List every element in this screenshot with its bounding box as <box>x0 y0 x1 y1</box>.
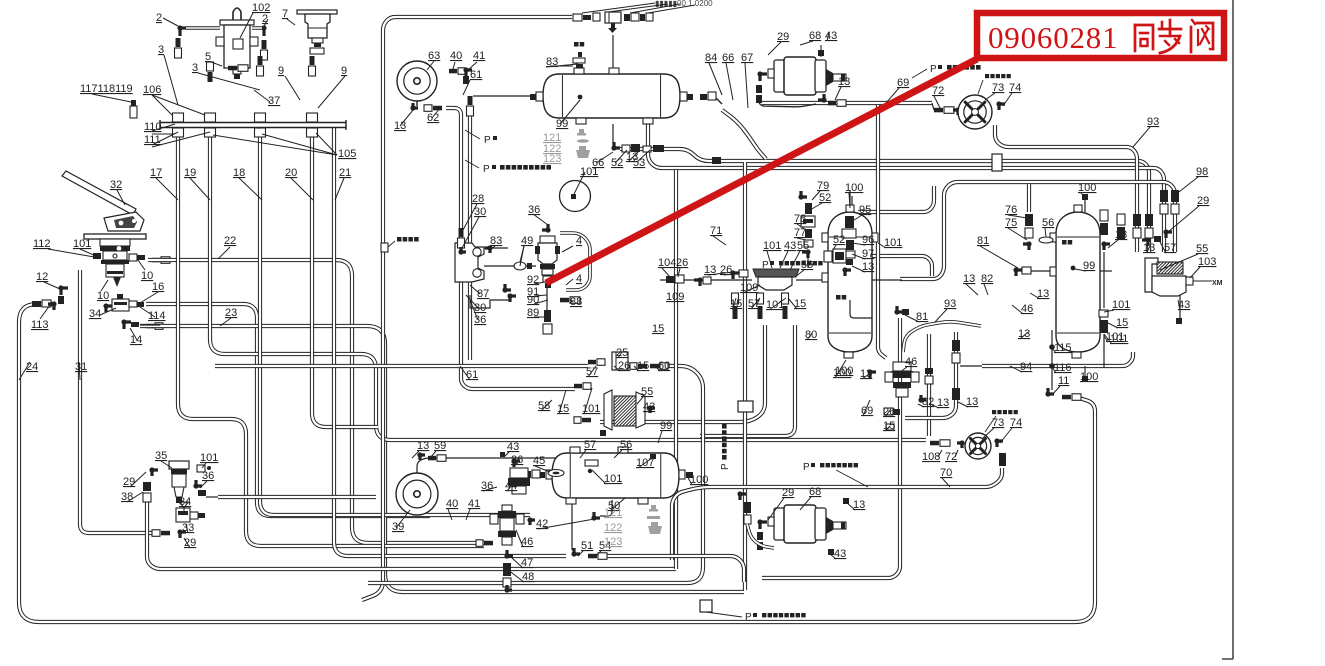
elbow 29r <box>1166 232 1172 238</box>
bolt 117 <box>131 100 136 106</box>
svg-text:123: 123 <box>604 536 622 548</box>
svg-text:13: 13 <box>838 76 850 88</box>
svg-text:101: 101 <box>763 240 781 252</box>
leader line <box>628 150 640 162</box>
leader line <box>164 55 178 105</box>
svg-text:74: 74 <box>1009 82 1021 94</box>
leader line <box>152 124 175 131</box>
red char fa <box>1192 20 1195 24</box>
fitting 5b <box>228 66 237 71</box>
fitting col 1104 <box>1100 210 1108 221</box>
fitting 14b <box>131 322 139 327</box>
elbow 13a <box>818 94 824 100</box>
leader line <box>48 249 100 258</box>
svg-text:75: 75 <box>1005 217 1017 229</box>
svg-text:99: 99 <box>556 118 568 130</box>
wire 23 <box>140 326 744 592</box>
leader line <box>580 450 586 458</box>
svg-text:41: 41 <box>473 50 485 62</box>
svg-text:29: 29 <box>782 487 794 499</box>
fitting 89 <box>544 310 551 322</box>
elbow 81 <box>897 306 903 312</box>
wire 62 <box>446 108 575 389</box>
svg-text:101: 101 <box>884 237 902 249</box>
leader line <box>117 190 125 205</box>
wire 78 stem <box>807 258 809 268</box>
leader line <box>574 172 585 194</box>
wire 36 out <box>218 495 376 499</box>
leader line <box>708 272 733 275</box>
leader line <box>1081 193 1085 198</box>
leader line <box>905 315 919 322</box>
fitting 81b <box>902 309 909 315</box>
leader line <box>614 366 620 371</box>
red char tong <box>1134 25 1137 51</box>
leader line <box>161 461 172 468</box>
fitting 83 <box>576 64 583 68</box>
svg-text:P: P <box>745 612 752 623</box>
leader line <box>463 80 470 95</box>
air tank 85 <box>828 212 872 352</box>
air tank 50 <box>552 453 679 498</box>
svg-text:51: 51 <box>581 540 593 552</box>
red callout box <box>977 13 1224 58</box>
leader line <box>768 42 781 55</box>
elbow 36a <box>542 224 548 230</box>
leader line <box>832 245 836 252</box>
fitting 3b <box>262 40 267 49</box>
elbow 2 right <box>256 28 264 36</box>
svg-text:113: 113 <box>31 319 49 331</box>
elbow 83b <box>485 248 490 253</box>
leader line <box>810 203 822 210</box>
wire 54 <box>605 556 744 582</box>
svg-text:11: 11 <box>1058 375 1069 387</box>
leader line <box>534 282 545 284</box>
annotation P7 <box>753 613 757 617</box>
leader line <box>1160 242 1166 253</box>
leader line <box>662 268 670 277</box>
svg-text:P: P <box>803 462 810 473</box>
gauge 39 <box>396 473 438 515</box>
leader line <box>318 76 345 108</box>
svg-text:55: 55 <box>797 240 809 252</box>
annotation P6 <box>811 463 815 467</box>
leader P3 <box>912 69 927 78</box>
fitting 48 <box>503 563 511 576</box>
wire 67a <box>716 98 722 104</box>
fitting 57b <box>572 456 580 461</box>
leader line <box>101 280 108 291</box>
svg-text:37: 37 <box>268 95 280 107</box>
svg-text:3: 3 <box>158 44 164 56</box>
hose 29 bottom <box>747 524 774 548</box>
svg-text:46: 46 <box>1021 303 1033 315</box>
wire tank1 drop right <box>648 124 1164 252</box>
wire 24 bottom loop <box>19 304 1095 622</box>
wire 22 <box>148 260 488 543</box>
leader line <box>618 352 622 358</box>
leader line <box>835 87 841 100</box>
svg-text:96: 96 <box>862 234 874 246</box>
wire 21 <box>334 128 566 556</box>
svg-text:56: 56 <box>620 439 632 451</box>
svg-text:99: 99 <box>1083 260 1095 272</box>
fitting 9c <box>258 56 263 65</box>
leader line <box>239 178 262 200</box>
annotation P2 <box>492 165 496 169</box>
svg-text:58: 58 <box>538 400 550 412</box>
leader line <box>846 502 855 510</box>
tank 104 text <box>1062 240 1067 245</box>
leader line <box>885 410 890 417</box>
svg-text:15: 15 <box>730 298 742 310</box>
wire 94 <box>982 352 1133 366</box>
leader line <box>1052 386 1060 395</box>
leader line <box>448 509 452 520</box>
annotation P6 text <box>820 463 824 467</box>
component 102 booster <box>220 20 254 25</box>
leader line <box>713 236 726 245</box>
fitting 81d <box>1022 267 1031 274</box>
port 99 dot <box>578 95 583 100</box>
svg-text:18: 18 <box>233 167 245 179</box>
svg-text:13: 13 <box>626 151 638 163</box>
leader line <box>1030 293 1040 299</box>
svg-text:P: P <box>483 164 490 175</box>
leader line <box>745 63 748 108</box>
leader line <box>430 451 436 458</box>
fitting 104 <box>666 276 674 283</box>
svg-text:40: 40 <box>450 50 462 62</box>
elbow 42b <box>530 520 535 525</box>
svg-text:114: 114 <box>148 310 166 322</box>
fitting column 785 <box>782 293 789 304</box>
leader line <box>852 254 865 259</box>
svg-text:22: 22 <box>224 235 236 247</box>
elbow 42 <box>594 512 600 518</box>
svg-text:XM: XM <box>1212 280 1223 287</box>
wire 95 drop <box>849 190 851 214</box>
leader line <box>140 307 155 317</box>
leader line <box>512 558 523 568</box>
wire 81c <box>1031 270 1050 272</box>
leader line <box>566 279 573 285</box>
wire 2a <box>186 26 220 29</box>
leader line <box>1008 228 1027 240</box>
leader line <box>885 426 890 431</box>
leader line <box>152 95 172 115</box>
svg-text:52: 52 <box>819 192 831 204</box>
svg-text:34: 34 <box>89 308 101 320</box>
leader line <box>1045 228 1046 237</box>
wire 61 riser <box>468 115 472 360</box>
svg-text:35: 35 <box>155 450 167 462</box>
leader line <box>79 362 80 380</box>
leader line <box>240 13 253 38</box>
leader line <box>780 251 788 268</box>
leader line <box>156 178 178 200</box>
leader line <box>44 282 60 289</box>
elbow 79 <box>801 191 807 197</box>
leader line <box>546 64 578 67</box>
fitting 69a <box>828 101 836 106</box>
svg-text:16: 16 <box>152 281 164 293</box>
foot brake valve 32 <box>62 171 136 215</box>
svg-text:100: 100 <box>835 365 853 377</box>
elbow 13 46b <box>870 372 876 378</box>
fitting 15b <box>574 417 581 424</box>
elbow 75 <box>1023 244 1029 250</box>
leader line <box>163 18 178 26</box>
elbow 13L2 <box>1104 244 1110 250</box>
svg-text:9: 9 <box>341 65 347 77</box>
svg-text:43: 43 <box>784 240 796 252</box>
elbow 2 left <box>180 28 188 36</box>
bracket 36b <box>470 295 510 308</box>
capsule 38 <box>143 482 151 491</box>
svg-text:82: 82 <box>981 273 993 285</box>
svg-text:108: 108 <box>922 451 940 463</box>
svg-text:26: 26 <box>676 257 688 269</box>
svg-text:29: 29 <box>184 537 196 549</box>
svg-text:29: 29 <box>1197 195 1209 207</box>
svg-text:26: 26 <box>511 454 523 466</box>
svg-text:P: P <box>930 64 937 75</box>
svg-text:83: 83 <box>490 235 502 247</box>
tank 98 ports <box>574 68 584 74</box>
fitting 26b <box>739 270 748 277</box>
leader line <box>335 178 344 200</box>
leader line <box>541 400 552 411</box>
leader line <box>1160 254 1198 270</box>
fitting 52a <box>622 145 630 152</box>
leader line <box>584 388 592 414</box>
svg-text:30: 30 <box>474 206 486 218</box>
annotation P2 text <box>500 165 505 170</box>
ellipse 45 <box>548 470 564 477</box>
elbow 48b <box>507 585 512 590</box>
svg-text:94: 94 <box>1020 361 1032 373</box>
svg-text:13: 13 <box>1115 229 1127 241</box>
wire 69 <box>762 101 932 105</box>
leader line <box>533 214 548 225</box>
leader line <box>468 62 477 70</box>
leader line <box>516 530 523 547</box>
fitting 101c <box>197 465 205 472</box>
leader line <box>1146 246 1150 253</box>
svg-text:87: 87 <box>477 288 489 300</box>
leader line <box>880 88 899 110</box>
component 7 reservoir <box>297 10 337 14</box>
leader line <box>287 19 295 25</box>
wire 31 <box>80 270 153 533</box>
leader line <box>138 260 145 270</box>
tank 85 inner fittings <box>845 216 854 228</box>
leader line <box>427 61 434 70</box>
svg-text:100: 100 <box>1078 182 1096 194</box>
fitting 113 <box>32 301 41 307</box>
annotation gauge 73b <box>992 410 996 414</box>
elbow 51 <box>574 548 580 554</box>
leader line <box>930 404 939 408</box>
svg-text:23: 23 <box>225 307 237 319</box>
fitting 88 <box>560 298 569 303</box>
fitting 13d <box>843 498 849 504</box>
elbow 13b <box>733 273 739 279</box>
elbow 11 <box>1048 388 1054 394</box>
leader line <box>264 19 268 26</box>
svg-text:123: 123 <box>543 153 561 165</box>
leader line <box>788 298 797 309</box>
fitting R2a <box>712 157 721 164</box>
leader line <box>851 215 862 222</box>
svg-text:101: 101 <box>1106 331 1124 343</box>
leader line <box>658 431 662 443</box>
wire 52 stub <box>612 124 614 144</box>
junction 115 <box>1049 344 1055 350</box>
leader gauge 73b <box>985 416 996 432</box>
valve 34 <box>117 294 123 299</box>
leader line <box>560 100 580 124</box>
elbow 41 <box>466 70 472 76</box>
coupling bottom nest <box>700 600 712 612</box>
wire 93 lower riser <box>927 334 931 436</box>
svg-text:13: 13 <box>963 273 975 285</box>
wire 43a stem <box>820 45 822 57</box>
leader line <box>942 478 950 487</box>
leader line <box>812 191 820 200</box>
fitting 30a <box>456 249 458 251</box>
annotation P1 <box>493 136 497 140</box>
elbow 14 <box>124 322 131 329</box>
annotation P5 <box>722 455 727 460</box>
fitting 101r <box>1100 320 1108 333</box>
leader line <box>1133 127 1150 147</box>
wire 100c stem <box>1084 366 1086 376</box>
wire top stem <box>612 35 614 70</box>
leader line <box>254 90 270 102</box>
leader line <box>538 518 600 529</box>
wire 13 col right b <box>1103 334 1105 368</box>
valve 33 <box>180 502 188 508</box>
svg-text:68: 68 <box>809 486 821 498</box>
elbow 47 <box>507 550 513 556</box>
svg-text:28: 28 <box>472 193 484 205</box>
leader line <box>596 152 613 163</box>
fitting 22a <box>152 258 160 263</box>
svg-text:45: 45 <box>533 455 545 467</box>
wire 2b <box>252 26 262 29</box>
leader line <box>797 238 806 240</box>
elbow 29a <box>760 74 767 81</box>
leader line <box>767 251 772 268</box>
leader line <box>985 93 995 100</box>
svg-text:36: 36 <box>202 470 214 482</box>
border tick <box>1222 658 1233 660</box>
svg-text:15: 15 <box>1116 317 1128 329</box>
fitting 15c <box>886 424 894 430</box>
svg-text:09060281: 09060281 <box>988 20 1118 55</box>
check valve 49 <box>514 262 526 270</box>
fitting 40b <box>476 540 483 547</box>
leader line <box>743 285 760 293</box>
tank 50 ports <box>570 447 580 453</box>
leader line <box>900 367 907 372</box>
annotation P4 <box>770 261 774 265</box>
leader line <box>432 108 440 118</box>
leader line <box>184 538 190 548</box>
fitting 40 <box>449 69 457 74</box>
svg-text:99: 99 <box>660 420 672 432</box>
leader line <box>1020 332 1028 339</box>
leader line <box>400 110 413 126</box>
leader line <box>466 295 478 308</box>
svg-text:109: 109 <box>666 291 684 303</box>
leader line <box>615 150 627 163</box>
leader line <box>592 470 606 484</box>
leader line <box>198 73 260 90</box>
fitting 43c <box>828 549 834 555</box>
wire 46b stub <box>960 365 982 367</box>
coupling R23 <box>992 154 1002 171</box>
pressure gauge 73a <box>958 95 992 129</box>
leader line <box>610 498 625 511</box>
leader line <box>935 309 947 322</box>
wire mid right a <box>858 186 934 212</box>
leader top text <box>630 4 680 13</box>
leader line <box>262 134 337 155</box>
wire 88 loop <box>560 233 590 290</box>
svg-text:82: 82 <box>922 396 934 408</box>
annotation P3 <box>938 65 942 69</box>
leader line <box>466 509 470 520</box>
leader line <box>980 246 1018 268</box>
fitting 57a <box>588 360 596 365</box>
leader line <box>396 510 410 528</box>
elbow 13r <box>1142 240 1148 246</box>
elbow 113b <box>48 304 54 310</box>
leader line <box>1003 93 1012 106</box>
leader line <box>1106 322 1118 328</box>
wire x745 <box>743 162 747 590</box>
red char bu <box>1169 20 1172 36</box>
leader line <box>1008 215 1027 218</box>
leader line <box>852 243 865 245</box>
svg-text:43: 43 <box>834 548 846 560</box>
elbow 29h <box>740 494 746 500</box>
fitting 54 <box>588 554 597 559</box>
gauge 63 stem <box>416 101 418 106</box>
synchronous valve 92 <box>540 236 555 243</box>
leader line <box>200 481 207 488</box>
fitting 28 <box>459 228 464 237</box>
leader line <box>218 247 230 259</box>
svg-text:122: 122 <box>604 522 622 534</box>
wire 72 link <box>932 103 934 110</box>
leader line <box>1052 348 1056 353</box>
svg-text:29: 29 <box>777 31 789 43</box>
wire 101 column <box>700 325 795 436</box>
fitting 15a <box>630 363 637 370</box>
wire 115 col <box>1051 330 1053 366</box>
leader top text <box>608 4 668 12</box>
wire 59 <box>417 458 455 473</box>
svg-text:62: 62 <box>427 112 439 124</box>
svg-text:78: 78 <box>794 213 806 225</box>
leader line <box>1178 300 1180 310</box>
fitting 100c <box>1082 376 1088 382</box>
